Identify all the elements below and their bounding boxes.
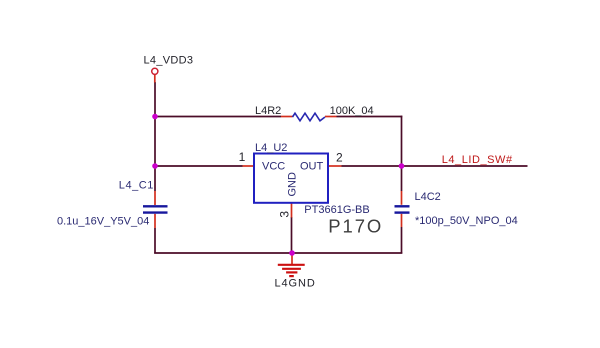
svg-text:2: 2 bbox=[336, 150, 343, 164]
svg-text:GND: GND bbox=[287, 172, 299, 197]
svg-text:3: 3 bbox=[277, 211, 291, 218]
svg-text:PT3661G-BB: PT3661G-BB bbox=[304, 204, 369, 216]
svg-text:L4_C1: L4_C1 bbox=[119, 180, 154, 192]
svg-text:L4_VDD3: L4_VDD3 bbox=[144, 55, 194, 67]
svg-text:P17O: P17O bbox=[328, 216, 383, 237]
svg-text:0.1u_16V_Y5V_04: 0.1u_16V_Y5V_04 bbox=[57, 216, 149, 228]
svg-text:L4_U2: L4_U2 bbox=[255, 142, 287, 154]
svg-text:1: 1 bbox=[239, 150, 246, 164]
svg-text:OUT: OUT bbox=[300, 161, 324, 173]
svg-text:100K_04: 100K_04 bbox=[330, 105, 374, 117]
svg-text:L4_LID_SW#: L4_LID_SW# bbox=[442, 154, 513, 166]
svg-text:L4C2: L4C2 bbox=[415, 191, 441, 203]
svg-text:L4GND: L4GND bbox=[275, 277, 316, 289]
svg-text:L4R2: L4R2 bbox=[255, 105, 281, 117]
svg-text:VCC: VCC bbox=[262, 161, 285, 173]
svg-text:*100p_50V_NPO_04: *100p_50V_NPO_04 bbox=[415, 215, 518, 227]
